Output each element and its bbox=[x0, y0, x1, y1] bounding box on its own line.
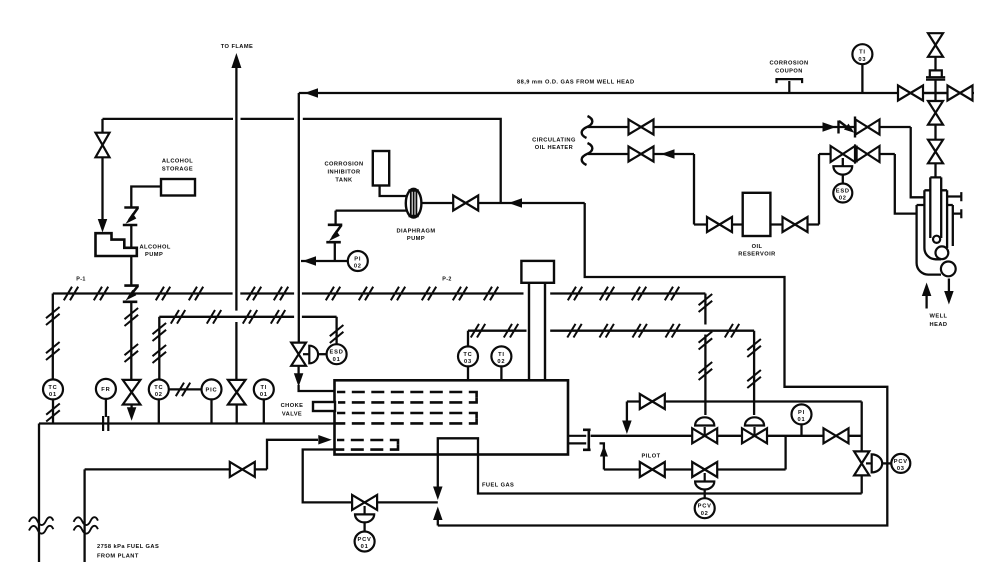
wire: left riser to plant fuel gas (bottom) bbox=[38, 424, 40, 562]
wire: header P-1b drop to ESD-01 solenoid bbox=[335, 317, 337, 344]
svg-text:PUMP: PUMP bbox=[407, 236, 425, 242]
wire: gas riser arrow into heater coil bbox=[297, 366, 299, 375]
heater stack bbox=[529, 283, 545, 381]
wire: PIC stem to process line bbox=[210, 399, 212, 423]
wire: wellhead tee crossing bbox=[924, 92, 948, 94]
wellhead casing 2 bbox=[917, 205, 953, 275]
valve on oil supply bbox=[629, 120, 654, 135]
svg-text:FROM PLANT: FROM PLANT bbox=[97, 554, 139, 560]
wire: pilot line riser to fuel line bbox=[784, 436, 786, 470]
injection Z symbol Z1 (alcohol) bbox=[123, 208, 139, 226]
wire: heater outlet drop with arrow to PCV-01 junction bbox=[437, 455, 439, 487]
svg-text:CHOKE: CHOKE bbox=[281, 403, 304, 409]
instrument PI-02 bbox=[348, 251, 368, 271]
instrument TI-01 bbox=[254, 379, 274, 399]
flare valve on TO FLAME riser bbox=[228, 380, 246, 405]
PCV-01 actuator dome bbox=[364, 506, 366, 514]
wire: header P-1b y=316.8 bbox=[159, 316, 294, 318]
svg-text:CORROSION: CORROSION bbox=[324, 162, 363, 168]
alcohol storage tank bbox=[161, 179, 195, 196]
valve after check valve bbox=[856, 120, 880, 135]
svg-text:CIRCULATING: CIRCULATING bbox=[532, 137, 576, 143]
svg-text:ALCOHOL: ALCOHOL bbox=[140, 245, 171, 251]
wire: dome to ESD-01 bubble bbox=[318, 353, 327, 355]
svg-text:TC: TC bbox=[463, 352, 472, 358]
svg-text:03: 03 bbox=[464, 359, 472, 365]
heater stack cap bbox=[521, 261, 554, 283]
ESD-01 actuator dome (right) bbox=[303, 353, 309, 355]
svg-text:ESD: ESD bbox=[330, 350, 344, 356]
valve on alcohol feed riser bbox=[96, 133, 110, 158]
svg-text:03: 03 bbox=[897, 466, 905, 472]
wire: TO FLAME riser below header1b gap bbox=[235, 322, 237, 381]
wire: flare header right part to corner x=500.7 bbox=[303, 119, 501, 203]
valve main gas line left of wellhead tee bbox=[898, 86, 923, 101]
arrow on oil supply pointing right bbox=[823, 122, 837, 132]
instrument PCV-03 bbox=[891, 454, 910, 473]
valve on inhibitor discharge bbox=[453, 196, 478, 211]
ESD-02 double block valve bbox=[831, 146, 855, 162]
slash pairs on header P-1 bbox=[64, 287, 78, 301]
svg-text:CORROSION: CORROSION bbox=[769, 61, 808, 67]
check valve on oil supply bbox=[837, 121, 839, 134]
wire: PI-01 stem bbox=[800, 424, 802, 435]
wellhead casing circle A bbox=[936, 246, 949, 259]
wire: alcohol feed down to pump with arrow bbox=[101, 157, 103, 221]
wire: tank outlet to diaphragm pump bbox=[380, 186, 406, 197]
valve right of oil reservoir bbox=[783, 217, 808, 232]
injection Z symbol Z2 (at pneumatic header P-1) bbox=[123, 286, 139, 302]
wire: TC-03 riser to header P-2 bbox=[467, 331, 469, 347]
wire: firetube return to PCV-01 bbox=[303, 450, 352, 503]
wire: fuel line from burner y=435.8 bbox=[591, 435, 693, 437]
svg-text:COUPON: COUPON bbox=[775, 69, 803, 75]
svg-text:02: 02 bbox=[839, 196, 847, 202]
wellhead right nozzle upper bbox=[947, 192, 961, 201]
well head up arrow bbox=[925, 295, 927, 309]
wellhead tubing (inner) bbox=[930, 177, 941, 238]
wire: flare header y=118.9 (left part) bbox=[103, 118, 234, 120]
svg-text:03: 03 bbox=[858, 57, 866, 63]
corrosion coupon symbol bbox=[777, 79, 803, 92]
svg-text:WELL: WELL bbox=[930, 314, 948, 320]
svg-text:TI: TI bbox=[260, 385, 267, 391]
wire: oil supply drop to wellhead casing bbox=[911, 127, 925, 197]
wire: TI-03 stem to main gas line bbox=[861, 64, 863, 93]
svg-text:PILOT: PILOT bbox=[642, 453, 661, 459]
wire: main gas line from well head y=93 bbox=[299, 92, 974, 94]
alcohol pump body bbox=[96, 233, 137, 256]
svg-text:02: 02 bbox=[155, 392, 163, 398]
wire: riser into tubing bbox=[934, 163, 936, 177]
wire: heater oil supply line y=127 bbox=[588, 126, 911, 128]
wire: bypass line y=401.5 bbox=[627, 400, 862, 402]
valve on burner supply bbox=[230, 462, 255, 477]
svg-text:PCV: PCV bbox=[358, 537, 372, 543]
svg-text:FR: FR bbox=[101, 387, 110, 393]
wire: wellhead riser to tee bbox=[934, 80, 936, 101]
break symbol on second riser bbox=[74, 517, 98, 525]
wellhead right nozzle lower bbox=[953, 209, 962, 218]
break squiggle heater supply bbox=[582, 116, 593, 138]
svg-text:PCV: PCV bbox=[698, 504, 712, 510]
wellhead lower valve bbox=[928, 140, 943, 164]
choke valve nozzle bbox=[313, 402, 335, 411]
heater coil pass 3-4 (dashed) bbox=[337, 413, 477, 418]
PCV-03 actuator dome (right) bbox=[866, 462, 872, 464]
svg-text:STORAGE: STORAGE bbox=[162, 167, 193, 173]
wire: dome to PCV-03 bubble bbox=[882, 462, 891, 464]
svg-text:88,9 mm O.D. GAS FROM WELL HEA: 88,9 mm O.D. GAS FROM WELL HEAD bbox=[517, 79, 635, 85]
wire: bypass drop arrow into fuel line bbox=[626, 402, 628, 422]
wellhead tubing shoe circle bbox=[933, 236, 940, 243]
wire: bypass/PCV-03 riser x=861.7 bbox=[861, 402, 863, 451]
wire: PCV-01 outlet to junction bbox=[377, 501, 438, 503]
wire: main process line y=423.5 bbox=[39, 422, 335, 424]
svg-text:TC: TC bbox=[154, 385, 163, 391]
wire: up arrow from HP gas loop into junction bbox=[433, 507, 443, 521]
svg-text:02: 02 bbox=[701, 511, 709, 517]
instrument ESD-02 bbox=[833, 184, 852, 203]
wellhead casing 1 bbox=[924, 190, 947, 259]
wire: main gas riser x=298.8 bbox=[298, 93, 300, 343]
wire: FR stem to orifice bbox=[105, 399, 107, 417]
break squiggle heater return bbox=[582, 143, 593, 165]
wire: TC-02 to PIC signal link bbox=[169, 388, 202, 390]
ESD-01 shutdown valve on gas riser bbox=[291, 343, 306, 366]
svg-text:PUMP: PUMP bbox=[145, 252, 163, 258]
wire: TC-01 signal riser bbox=[52, 294, 54, 380]
wire: pneumatic header P-1 y=293.5 bbox=[53, 292, 233, 294]
wire: pump suction line bbox=[336, 209, 407, 211]
wire: heater oil return line y=154 bbox=[588, 153, 694, 155]
wellhead crown fitting bbox=[926, 70, 945, 79]
svg-text:TC: TC bbox=[48, 385, 57, 391]
valve on pilot line bbox=[640, 462, 665, 477]
svg-text:PCV: PCV bbox=[894, 459, 908, 465]
svg-text:PI: PI bbox=[798, 410, 805, 416]
instrument TI-02 bbox=[491, 346, 511, 366]
wire: dome to PCV-01 bubble bbox=[363, 522, 365, 531]
wire: TI-02 stem to heater bbox=[500, 366, 502, 380]
diaphragm pump bbox=[406, 189, 422, 218]
svg-text:OIL HEATER: OIL HEATER bbox=[535, 145, 573, 151]
svg-text:02: 02 bbox=[354, 264, 362, 270]
arrow on oil return pointing left bbox=[661, 149, 675, 159]
valve on oil return bbox=[629, 147, 654, 162]
heater coil pass 1-2 (dashed) bbox=[337, 392, 477, 397]
wire: storage to downcomer bbox=[131, 187, 161, 208]
svg-text:01: 01 bbox=[798, 417, 806, 423]
wire: header P-1 drop to PCV dome bbox=[704, 294, 706, 325]
arrow on main gas line pointing left bbox=[305, 88, 319, 98]
svg-text:01: 01 bbox=[333, 357, 341, 363]
svg-text:VALVE: VALVE bbox=[282, 412, 302, 418]
instrument PCV-02 bbox=[695, 498, 715, 518]
wire: ESD-02 actuator stem bbox=[842, 158, 844, 166]
wire: header P-2 drop to TCV dome bbox=[753, 331, 755, 415]
svg-text:P-2: P-2 bbox=[442, 276, 451, 282]
wire: TI-01 stem to process line bbox=[263, 399, 265, 423]
wire: TC-01 to process line bbox=[52, 399, 54, 423]
wire: burner supply line y=469.4 bbox=[85, 440, 318, 470]
wire: riser between valves bbox=[934, 125, 936, 140]
orifice plate flow element bbox=[102, 416, 104, 431]
svg-text:01: 01 bbox=[49, 392, 57, 398]
instrument TC-03 bbox=[458, 346, 478, 366]
oil reservoir vessel bbox=[743, 193, 771, 236]
wire: flare valve riser x=102.5 down from header bbox=[101, 119, 103, 133]
valve on fuel line right bbox=[824, 428, 849, 443]
wire: Z3 down to injection point line bbox=[334, 242, 336, 261]
wire: pilot takeoff bbox=[600, 443, 604, 469]
wire: suction downcomer to Z3 bbox=[334, 211, 336, 225]
ESD-02 actuator dome bbox=[833, 166, 852, 174]
instrument TC-02 bbox=[149, 379, 169, 399]
svg-text:P-1: P-1 bbox=[76, 276, 85, 282]
heater shell bbox=[335, 380, 569, 454]
wire: fuel line between valves and to PI-01 bbox=[717, 435, 742, 437]
valve main gas line right of wellhead tee bbox=[948, 86, 973, 101]
wire: wellhead riser upper bbox=[934, 57, 936, 71]
wire: reservoir left pipe bbox=[694, 223, 743, 225]
wire: dome to PCV-02 bubble bbox=[704, 490, 706, 499]
wire: TC-03 stem to heater bbox=[467, 366, 469, 380]
wire: TO FLAME riser with arrow up bbox=[231, 53, 241, 68]
instrument TC-01 bbox=[43, 379, 63, 399]
wellhead top valve bbox=[928, 33, 943, 57]
wire: tee to corner x=584.7 with left arrow bbox=[501, 202, 585, 204]
wire: injection line into gas riser with arrow bbox=[301, 260, 348, 262]
wire: TC-02 stem to process line bbox=[158, 399, 160, 423]
wire: second riser from plant bbox=[83, 469, 85, 562]
firetube U (dashed) bbox=[337, 440, 398, 445]
well head down arrow bbox=[948, 279, 950, 293]
wire: reservoir right pipe bbox=[770, 223, 819, 225]
wire: PCV-03 down to fuel gas line bbox=[861, 475, 863, 493]
corrosion inhibitor tank bbox=[373, 151, 389, 186]
wire: arrow into process line bbox=[130, 405, 132, 410]
arrow into heater firebox bbox=[318, 435, 332, 445]
burner mount on heater right wall bbox=[568, 436, 586, 444]
wire: Z1 to pump bbox=[130, 225, 132, 247]
wire: discharge to tee at x=501 bbox=[478, 202, 501, 204]
instrument PCV-01 bbox=[355, 532, 375, 552]
fuel control valve PCV (dome above) bbox=[692, 428, 717, 443]
instrument TI-03 bbox=[852, 44, 872, 64]
svg-text:2758 kPa FUEL GAS: 2758 kPa FUEL GAS bbox=[97, 544, 159, 550]
injection Z symbol Z3 (inhibitor to gas riser) bbox=[326, 225, 342, 242]
svg-text:PIC: PIC bbox=[206, 388, 218, 394]
svg-text:ALCOHOL: ALCOHOL bbox=[162, 159, 193, 165]
svg-text:DIAPHRAGM: DIAPHRAGM bbox=[396, 229, 435, 235]
PCV-03 valve (vertical) bbox=[854, 451, 869, 475]
wire: TC-02 riser to header P-1b bbox=[158, 317, 160, 380]
wire: HP gas loop from inhibitor tee corner bbox=[438, 203, 888, 526]
instrument PIC bbox=[202, 379, 222, 399]
injection valve on alcohol line bbox=[123, 380, 141, 405]
wire: flare header across TO FLAME riser to gas riser bbox=[241, 118, 294, 120]
wire: pilot line y=469.5 bbox=[604, 468, 786, 470]
wire: dome to ESD-02 bubble bbox=[842, 175, 844, 184]
wire: ESD-02 valve line y=154 bbox=[819, 153, 895, 155]
wire: riser from reservoir up to ESD-02 line bbox=[818, 154, 820, 225]
wellhead casing circle B bbox=[941, 262, 956, 277]
PCV-01 valve bbox=[352, 495, 377, 510]
svg-text:TO FLAME: TO FLAME bbox=[221, 44, 254, 50]
svg-text:02: 02 bbox=[497, 359, 505, 365]
valve on bypass bbox=[640, 394, 665, 409]
wire: pump discharge bbox=[421, 202, 453, 204]
svg-text:RESERVOIR: RESERVOIR bbox=[738, 252, 775, 258]
svg-text:INHIBITOR: INHIBITOR bbox=[327, 170, 360, 176]
instrument PI-01 bbox=[792, 404, 812, 424]
break symbol on left riser bbox=[29, 517, 53, 525]
pilot control valve PCV-02 (dome below) bbox=[692, 462, 717, 477]
svg-text:01: 01 bbox=[260, 392, 268, 398]
instrument ESD-01 bbox=[327, 344, 347, 364]
instrument FR bbox=[96, 379, 116, 399]
heater outlet box bbox=[438, 438, 478, 455]
svg-text:01: 01 bbox=[361, 544, 369, 550]
wire: flare riser to process line bbox=[236, 405, 238, 424]
svg-text:TI: TI bbox=[859, 50, 866, 56]
wire: ESD-02 line drop to wellhead casing2 bbox=[895, 154, 917, 214]
fuel control valve TCV (dome above) bbox=[742, 428, 767, 443]
svg-text:OIL: OIL bbox=[752, 244, 763, 250]
wire: header P-2 y=330.7 bbox=[468, 330, 527, 332]
wire: pump outlet down to header1 Z2 bbox=[130, 256, 132, 285]
svg-text:FUEL GAS: FUEL GAS bbox=[482, 483, 514, 489]
wellhead valve below tee bbox=[928, 101, 943, 125]
svg-text:TANK: TANK bbox=[335, 178, 353, 184]
svg-text:ESD: ESD bbox=[836, 188, 850, 194]
svg-text:HEAD: HEAD bbox=[930, 322, 948, 328]
valve left of oil reservoir bbox=[707, 217, 732, 232]
wire: oil return riser down to reservoir loop bbox=[693, 154, 695, 225]
wire: fuel gas takeoff from box to fuel gas line bbox=[478, 455, 862, 494]
svg-text:PI: PI bbox=[354, 256, 361, 262]
wire: alcohol line down to injection valve, slashes bbox=[130, 302, 132, 380]
svg-text:TI: TI bbox=[498, 352, 505, 358]
